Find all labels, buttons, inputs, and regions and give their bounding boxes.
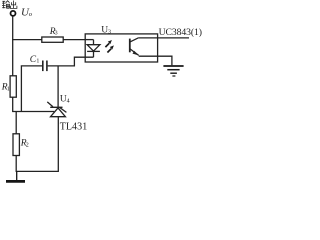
svg-text:4: 4 xyxy=(67,99,70,105)
svg-text:2: 2 xyxy=(26,142,29,148)
label TL431 xyxy=(60,122,87,133)
wire R1 bottom xyxy=(12,97,14,111)
wire TL431 cathode xyxy=(57,66,59,107)
wire emitter to ground xyxy=(139,56,172,65)
capacitor C1 xyxy=(43,61,47,72)
optocoupler LED diode xyxy=(85,40,100,58)
svg-text:3: 3 xyxy=(108,29,111,35)
svg-text:TL431: TL431 xyxy=(60,122,87,133)
label R3 xyxy=(49,27,58,37)
label Uo xyxy=(21,7,33,19)
wire TL431 anode xyxy=(57,117,59,172)
label C1 xyxy=(30,55,40,65)
label U4 xyxy=(60,95,70,105)
resistor R1 xyxy=(10,76,16,97)
label UC3843(1) xyxy=(159,27,202,38)
wire node to R3 xyxy=(12,39,42,41)
optocoupler U3 box xyxy=(85,34,157,62)
label 输出 (output) xyxy=(2,1,17,9)
svg-text:1: 1 xyxy=(36,59,39,65)
label R2 xyxy=(20,139,29,149)
LED light emission arrows xyxy=(105,40,114,53)
label U3 xyxy=(101,26,111,36)
wire TL431 ref xyxy=(12,111,54,113)
TL431 regulator U4 xyxy=(47,102,66,117)
wire R3 to optocoupler xyxy=(63,39,85,41)
wire output rail xyxy=(12,16,14,76)
ground (bottom left) xyxy=(6,171,25,181)
resistor R3 xyxy=(42,37,63,42)
wire R2 top xyxy=(15,112,17,134)
svg-text:o: o xyxy=(29,11,33,18)
wire LED cathode to C1/TL431 node xyxy=(48,57,94,66)
ground (right) xyxy=(163,66,183,76)
resistor R2 xyxy=(13,134,19,156)
wire bottom return xyxy=(16,170,59,172)
wire collector to UC3843 pin 1 xyxy=(139,37,189,39)
svg-text:3: 3 xyxy=(55,31,58,37)
svg-text:UC3843(1): UC3843(1) xyxy=(159,27,202,38)
phototransistor xyxy=(130,38,139,56)
node Uo output terminal xyxy=(11,11,16,16)
wire C1 left lead xyxy=(21,66,42,112)
wire R2 bottom xyxy=(15,156,17,172)
svg-text:1: 1 xyxy=(7,86,10,92)
label R1 xyxy=(1,83,10,93)
